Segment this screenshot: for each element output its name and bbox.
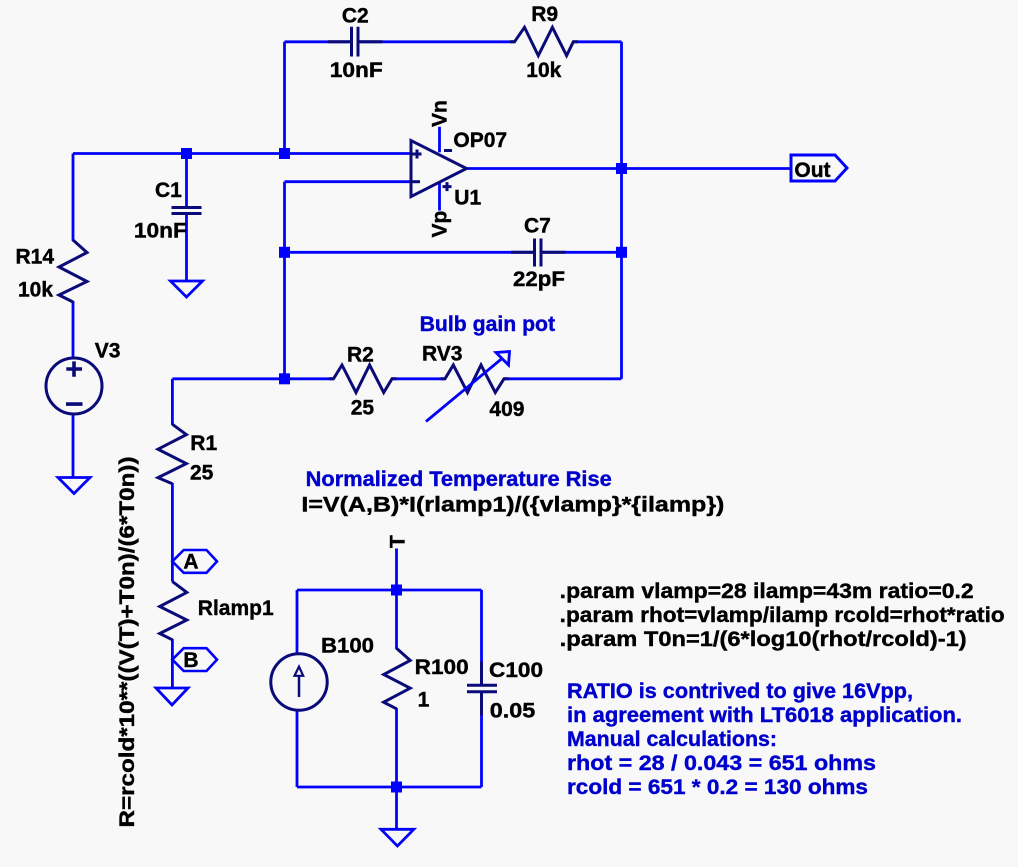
svg-text:Vn: Vn [429,100,452,127]
ground tank [381,829,414,846]
wire Vp pin stub [438,182,441,210]
wire R14 top lead [72,154,75,242]
op-amp U1 input plus mark [413,150,422,159]
ground Rlamp1 [156,688,188,705]
svg-text:V3: V3 [95,340,121,363]
op-amp U1 Vn minus mark [444,149,452,152]
svg-text:A: A [183,551,198,574]
svg-text:.param rhot=vlamp/ilamp rcold=: .param rhot=vlamp/ilamp rcold=rhot*ratio [560,604,1005,627]
capacitor C2 [328,27,383,57]
svg-text:10nF: 10nF [330,59,383,82]
svg-text:R100: R100 [415,656,469,679]
junction inverting C7 [279,247,290,258]
behavioral source B100 [271,654,327,710]
junction R2 left [279,373,290,384]
svg-text:T: T [387,535,410,548]
junction C1 top [181,148,192,159]
wire tank bottom horizontal [297,786,482,789]
svg-text:OP07: OP07 [453,129,507,152]
svg-text:R2: R2 [347,343,374,366]
wire Vn pin stub [438,127,441,153]
wire V3 to ground [72,414,75,478]
potentiometer RV3 arrow [426,352,510,422]
svg-text:R=rcold*10**((V(T)+T0n)/(6*T0n: R=rcold*10**((V(T)+T0n)/(6*T0n)) [116,456,139,827]
svg-text:10nF: 10nF [134,220,187,243]
capacitor C1 [172,208,202,214]
svg-text:C1: C1 [155,179,182,202]
svg-text:R9: R9 [531,3,558,26]
svg-text:Normalized Temperature Rise: Normalized Temperature Rise [306,468,612,491]
junction tank top [391,585,402,596]
svg-text:U1: U1 [454,186,481,209]
wire inverting input horizontal [285,180,412,183]
svg-text:Bulb gain pot: Bulb gain pot [420,313,555,336]
capacitor C7 [511,239,566,267]
wire R2 RV3 horizontal [172,377,621,380]
svg-text:R14: R14 [16,246,55,269]
resistor R100 [384,648,411,709]
wire T label stub [395,549,398,591]
svg-text:RV3: RV3 [422,343,462,366]
wire C7 horizontal [285,251,622,254]
resistor R1 [158,424,186,484]
svg-text:I=V(A,B)*I(rlamp1)/({vlamp}*{i: I=V(A,B)*I(rlamp1)/({vlamp}*{ilamp}) [301,494,724,517]
op-amp U1 input minus mark [412,180,420,183]
wire C100 bottom lead [480,714,483,787]
svg-text:C2: C2 [342,5,369,28]
svg-text:0.05: 0.05 [490,700,536,723]
wire R1 top lead [171,379,174,425]
wire C100 top lead [480,590,483,663]
svg-text:RATIO is contrived to give 16V: RATIO is contrived to give 16Vpp, [567,680,913,703]
output port flag Out [791,155,847,181]
wire R1 to Rlamp1 [171,483,174,582]
svg-text:Out: Out [794,159,830,182]
wire B100 bottom lead [296,710,299,787]
potentiometer RV3 [441,365,509,393]
wire tank top horizontal [297,589,482,592]
node flag A [172,550,217,573]
svg-text:C100: C100 [489,659,543,682]
wire right feedback vertical [620,42,623,379]
resistor R2 [329,365,397,393]
capacitor C100 [467,662,497,716]
wire top feedback horizontal [285,40,622,43]
wire main node horizontal [73,152,411,155]
wire tank ground stub [395,787,398,829]
ground V3 [58,478,90,494]
svg-text:.param T0n=1/(6*log10(rhot/rco: .param T0n=1/(6*log10(rhot/rcold)-1) [560,628,967,651]
junction C7 right [616,247,627,258]
wire C1 to ground [185,214,188,281]
resistor R14 [59,240,87,302]
voltage source V3 [46,358,102,414]
svg-text:R1: R1 [190,432,217,455]
op-amp U1 Vp plus mark [443,182,452,191]
svg-text:10k: 10k [526,59,561,82]
svg-text:B100: B100 [321,634,374,657]
svg-text:25: 25 [351,397,375,420]
svg-text:22pF: 22pF [513,268,565,291]
wire R100 bottom lead [395,708,398,787]
resistor Rlamp1 [160,582,187,640]
node flag B [172,648,217,671]
wire Rlamp1 to ground [171,639,174,688]
svg-text:rcold = 651 * 0.2 = 130 ohms: rcold = 651 * 0.2 = 130 ohms [567,776,868,799]
junction tank bottom [391,782,402,793]
svg-text:Vp: Vp [429,211,452,238]
wire R100 top lead [395,590,398,649]
svg-text:25: 25 [190,461,214,484]
svg-text:.param vlamp=28 ilamp=43m rati: .param vlamp=28 ilamp=43m ratio=0.2 [560,580,974,603]
op-amp U1 triangle [411,141,467,197]
wire op-amp output [467,167,792,170]
junction feedback left [279,148,290,159]
ground C1 [171,281,203,297]
svg-text:Manual calculations:: Manual calculations: [567,728,777,751]
svg-text:in agreement with LT6018 appli: in agreement with LT6018 application. [567,704,962,727]
junction output [616,163,627,174]
wire B100 top lead [296,590,299,654]
wire C1 top lead [185,154,188,208]
svg-text:C7: C7 [524,215,551,238]
wire R14 to V3 [72,301,75,358]
wire left feedback vertical [283,42,286,154]
svg-text:409: 409 [489,398,524,421]
svg-text:Rlamp1: Rlamp1 [198,597,274,620]
svg-text:10k: 10k [18,279,53,302]
svg-text:B: B [183,649,198,672]
resistor R9 [510,27,578,55]
wire inverting input vertical [283,182,286,379]
svg-text:1: 1 [418,689,430,712]
svg-text:rhot = 28 / 0.043 = 651 ohms: rhot = 28 / 0.043 = 651 ohms [567,752,876,775]
